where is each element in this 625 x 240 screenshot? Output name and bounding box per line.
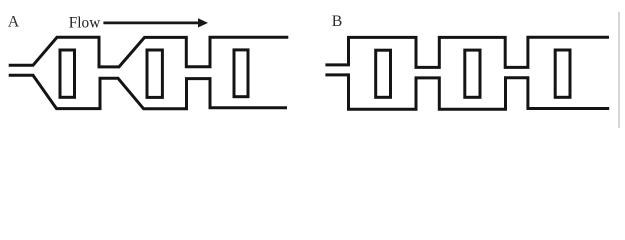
flow arrow head [198,18,208,27]
svg-text:Flow: Flow [69,15,100,32]
panel A pillar 2 [147,50,162,97]
svg-text:B: B [332,13,343,30]
panel A pillar 3 [234,50,248,97]
panel B pillar 2 [465,50,480,97]
panel B channel top wall [325,37,609,67]
panel A channel bottom wall [9,75,287,109]
flow arrow shaft [103,22,199,25]
panel A pillar 1 [60,50,75,97]
panel B pillar 3 [555,50,570,97]
panel B channel bottom wall [325,75,609,109]
right edge rule [618,12,620,128]
panel A channel top wall [9,37,289,67]
panel B pillar 1 [376,50,391,97]
svg-text:A: A [8,14,20,31]
